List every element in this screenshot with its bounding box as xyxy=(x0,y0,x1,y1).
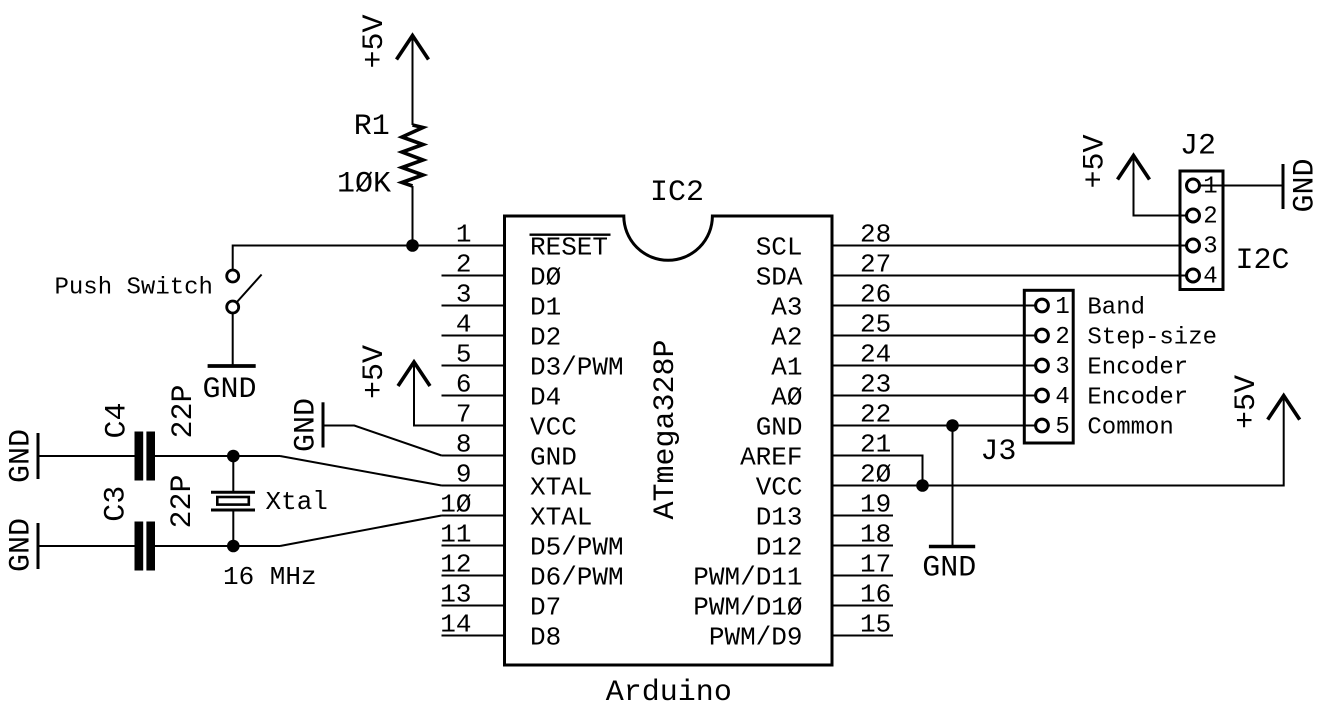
wire node B diagonal to pin 10 xyxy=(280,516,442,547)
J2 pin numbers xyxy=(1203,174,1217,291)
svg-text:C3: C3 xyxy=(100,486,134,522)
node B junction xyxy=(227,540,240,553)
wire switch to ground xyxy=(232,313,234,365)
wire GND to C3 xyxy=(39,545,135,547)
svg-text:D12: D12 xyxy=(756,532,803,562)
J3 pin numbers xyxy=(1055,294,1069,441)
connector J2 I2C xyxy=(1180,130,1290,290)
svg-text:+5V: +5V xyxy=(1079,134,1113,188)
wire +5V to J2 pin 2 xyxy=(1134,156,1187,216)
ground (J3 common) xyxy=(922,547,976,586)
svg-text:I2C: I2C xyxy=(1236,244,1290,278)
svg-text:GND: GND xyxy=(4,429,38,483)
svg-text:GND: GND xyxy=(1289,158,1321,212)
wire +5V to pin 7 xyxy=(414,362,505,426)
ground (left of C4) xyxy=(4,429,38,483)
svg-text:D8: D8 xyxy=(530,622,561,652)
wire pin 20 VCC to +5V xyxy=(832,396,1284,486)
svg-text:J2: J2 xyxy=(1180,130,1216,164)
node junction (R1 / pin1 / switch) xyxy=(406,239,419,252)
svg-text:AREF: AREF xyxy=(740,442,802,472)
power +5V symbol (pin 7 VCC) xyxy=(358,345,430,399)
ground (push switch) xyxy=(203,366,257,407)
node A junction xyxy=(227,450,240,463)
capacitor C3 22P xyxy=(100,474,201,570)
svg-text:Encoder: Encoder xyxy=(1087,384,1188,411)
resistor R1 xyxy=(337,110,423,202)
svg-text:D13: D13 xyxy=(756,502,803,532)
svg-text:A2: A2 xyxy=(771,322,802,352)
wire xtal bottom to node B xyxy=(232,510,234,546)
svg-text:Arduino: Arduino xyxy=(606,676,732,710)
svg-text:+5V: +5V xyxy=(358,14,392,68)
pin 17 stub xyxy=(832,575,893,577)
svg-text:ATmega328P: ATmega328P xyxy=(649,339,683,519)
right pin numbers 28-15 xyxy=(860,220,891,640)
svg-text:GND: GND xyxy=(290,398,324,452)
svg-text:D1: D1 xyxy=(530,292,561,322)
svg-text:GND: GND xyxy=(756,412,803,442)
svg-text:VCC: VCC xyxy=(530,412,577,442)
svg-text:C4: C4 xyxy=(101,402,135,438)
wire node A to xtal top xyxy=(232,456,234,492)
svg-text:4: 4 xyxy=(1055,384,1069,411)
wire pin 21 AREF down to VCC wire xyxy=(832,456,923,486)
svg-text:VCC: VCC xyxy=(756,472,803,502)
svg-text:4: 4 xyxy=(1203,264,1217,291)
svg-text:3: 3 xyxy=(1055,354,1069,381)
svg-text:J3: J3 xyxy=(980,435,1016,469)
IC2 ATmega328P body xyxy=(505,176,833,710)
svg-text:22P: 22P xyxy=(167,384,201,438)
svg-text:1Ø: 1Ø xyxy=(440,490,471,520)
wire pin 23 A0 to J3 pin 4 xyxy=(832,395,1036,397)
wire GND to C4 xyxy=(39,455,135,457)
svg-text:IC2: IC2 xyxy=(650,176,704,210)
wire pin 24 A1 to J3 pin 3 xyxy=(832,365,1036,367)
svg-text:1: 1 xyxy=(456,220,472,250)
svg-text:5: 5 xyxy=(1055,414,1069,441)
wire node to pin 1 and to push switch xyxy=(233,246,505,271)
connector J3 xyxy=(980,290,1073,469)
wire pin 28 SCL to J2 pin 3 xyxy=(832,245,1187,247)
svg-text:GND: GND xyxy=(4,518,38,572)
svg-text:XTAL: XTAL xyxy=(530,502,592,532)
svg-text:16 MHz: 16 MHz xyxy=(223,562,317,592)
wire pin 22 GND to J3 pin 5 xyxy=(832,425,1036,427)
svg-text:22P: 22P xyxy=(166,474,200,528)
svg-text:PWM/D11: PWM/D11 xyxy=(693,562,802,592)
svg-text:1: 1 xyxy=(1203,174,1217,201)
svg-text:+5V: +5V xyxy=(358,345,392,399)
J3 signal labels xyxy=(1087,294,1217,441)
svg-text:GND: GND xyxy=(203,373,257,407)
svg-text:XTAL: XTAL xyxy=(530,472,592,502)
svg-text:A1: A1 xyxy=(771,352,802,382)
svg-text:A3: A3 xyxy=(771,292,802,322)
wire J2 pin 1 to ground xyxy=(1200,185,1284,187)
push switch S1 xyxy=(55,270,262,313)
svg-text:R1: R1 xyxy=(354,110,390,144)
svg-text:3: 3 xyxy=(456,280,472,310)
svg-text:D6/PWM: D6/PWM xyxy=(530,562,624,592)
svg-text:9: 9 xyxy=(456,460,472,490)
left pin numbers 1-14 xyxy=(440,220,471,640)
wire C3 to node B xyxy=(155,545,280,547)
svg-text:1ØK: 1ØK xyxy=(337,168,391,202)
power +5V symbol (right) xyxy=(1230,375,1300,429)
svg-text:Step-size: Step-size xyxy=(1087,324,1217,351)
node junction on wire 22 xyxy=(946,419,959,432)
svg-text:SCL: SCL xyxy=(756,232,803,262)
svg-text:5: 5 xyxy=(456,340,472,370)
crystal Q1 Xtal xyxy=(211,487,328,592)
capacitor C4 22P xyxy=(101,384,202,480)
svg-text:D5/PWM: D5/PWM xyxy=(530,532,624,562)
svg-text:12: 12 xyxy=(440,550,471,580)
left pin stubs 2-14 xyxy=(442,276,505,636)
svg-text:GND: GND xyxy=(530,442,577,472)
svg-text:8: 8 xyxy=(456,430,472,460)
svg-text:PWM/D9: PWM/D9 xyxy=(709,622,803,652)
svg-text:2: 2 xyxy=(456,250,472,280)
node junction on wire 20 xyxy=(916,479,929,492)
svg-text:RESET: RESET xyxy=(530,232,608,262)
svg-text:1: 1 xyxy=(1055,294,1069,321)
wire node to ground xyxy=(952,426,954,546)
wire GND to pin 8 xyxy=(325,426,442,456)
svg-text:DØ: DØ xyxy=(530,262,561,292)
svg-text:Encoder: Encoder xyxy=(1087,354,1188,381)
svg-text:D3/PWM: D3/PWM xyxy=(530,352,624,382)
svg-text:2: 2 xyxy=(1055,324,1069,351)
wire pin 26 A3 to J3 pin 1 xyxy=(832,305,1036,307)
pin 16 stub xyxy=(832,605,893,607)
right pin names xyxy=(693,232,803,652)
svg-text:6: 6 xyxy=(456,370,472,400)
svg-text:Common: Common xyxy=(1087,414,1173,441)
svg-text:2: 2 xyxy=(1203,204,1217,231)
svg-text:SDA: SDA xyxy=(756,262,803,292)
ground (J2) xyxy=(1283,158,1321,212)
wire R1 bottom to node xyxy=(412,186,414,246)
left pin names xyxy=(530,232,624,652)
svg-text:13: 13 xyxy=(440,580,471,610)
pin 18 stub xyxy=(832,545,893,547)
power +5V symbol (above R1) xyxy=(358,14,429,125)
wire C4 to xtal node A xyxy=(155,455,280,457)
svg-text:7: 7 xyxy=(456,400,472,430)
ground (pin 8) xyxy=(290,398,324,452)
svg-text:3: 3 xyxy=(1203,234,1217,261)
svg-text:AØ: AØ xyxy=(771,382,802,412)
svg-text:11: 11 xyxy=(440,520,471,550)
wire pin 25 A2 to J3 pin 2 xyxy=(832,335,1036,337)
power +5V symbol (J2) xyxy=(1079,134,1150,188)
svg-text:14: 14 xyxy=(440,610,471,640)
wire node A diagonal to pin 9 xyxy=(280,456,442,486)
wire pin 27 SDA to J2 pin 4 xyxy=(832,275,1187,277)
svg-text:4: 4 xyxy=(456,310,472,340)
svg-text:Xtal: Xtal xyxy=(266,487,328,517)
svg-text:GND: GND xyxy=(922,552,976,586)
svg-text:Push Switch: Push Switch xyxy=(55,275,213,302)
svg-text:D4: D4 xyxy=(530,382,561,412)
svg-text:+5V: +5V xyxy=(1230,375,1264,429)
ground (left of C3) xyxy=(4,518,38,572)
svg-text:PWM/D1Ø: PWM/D1Ø xyxy=(693,592,802,622)
svg-text:D7: D7 xyxy=(530,592,561,622)
svg-text:Band: Band xyxy=(1087,294,1145,321)
pin 19 stub xyxy=(832,515,893,517)
svg-text:D2: D2 xyxy=(530,322,561,352)
pin 15 stub xyxy=(832,635,893,637)
